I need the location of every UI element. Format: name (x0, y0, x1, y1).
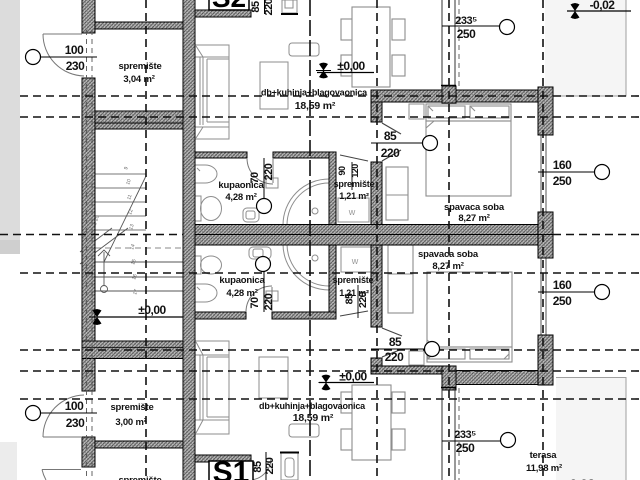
unit box S1 (209, 456, 253, 480)
svg-text:spavaca soba: spavaca soba (444, 202, 505, 213)
svg-text:250: 250 (457, 27, 476, 41)
level marker stairwell (89, 303, 183, 325)
svg-text:220: 220 (385, 350, 404, 364)
svg-text:230: 230 (66, 59, 85, 73)
dim 233/250 bottom (442, 429, 516, 455)
svg-text:220: 220 (381, 146, 400, 160)
svg-text:4,28 m²: 4,28 m² (225, 192, 256, 203)
fixtures: washbasin S2 (243, 208, 259, 222)
dim 100/230 bottom (26, 399, 98, 430)
left gray scan band (0, 0, 20, 480)
sprem/bedroom wall S2 (371, 90, 382, 122)
dim 85/220 entrance S1 (252, 452, 276, 480)
svg-text:kupaonica: kupaonica (219, 275, 265, 286)
wbox S1 (341, 247, 372, 272)
svg-text:233⁵: 233⁵ (455, 15, 477, 27)
svg-text:85: 85 (250, 1, 262, 13)
dim 70/220 bath S1 (249, 257, 275, 313)
svg-text:85: 85 (252, 461, 264, 473)
door shelf S2 (266, 178, 278, 188)
stair bottom wall midline (82, 347, 183, 349)
svg-text:-0,02: -0,02 (590, 0, 616, 12)
svg-text:18,59 m²: 18,59 m² (295, 100, 336, 112)
svg-text:8,27 m²: 8,27 m² (458, 213, 489, 224)
door arc bath S2 (247, 158, 273, 184)
door shelf S1 (266, 291, 278, 301)
terrace door S1 (441, 388, 456, 480)
furniture: dining table S1 (341, 385, 405, 460)
svg-text:100: 100 (65, 43, 84, 57)
right wall segments (538, 87, 553, 135)
furniture: bed S1 (427, 272, 512, 362)
svg-text:1,21 m²: 1,21 m² (339, 288, 369, 298)
svg-text:S2: S2 (212, 0, 246, 13)
furniture: nightstand S2 (409, 104, 424, 119)
svg-text:spremište: spremište (333, 275, 374, 285)
furniture: couch S1 (195, 341, 229, 434)
fixtures: shower S2 (283, 179, 329, 225)
svg-text:1,21 m²: 1,21 m² (339, 191, 369, 201)
door arc entrance S1 (249, 458, 271, 480)
wbox S2 (338, 198, 369, 222)
svg-text:4,28 m²: 4,28 m² (226, 288, 257, 299)
svg-text:spremište: spremište (334, 179, 375, 189)
grid dashed verticals (145, 0, 147, 480)
bath/sprem wall S2 (329, 152, 336, 225)
dim 85/220 entrance S2 (250, 0, 275, 15)
furniture: kitchen unit S1 bottom (280, 453, 299, 480)
svg-text:11,98 m²: 11,98 m² (526, 463, 562, 474)
svg-text:160: 160 (553, 278, 572, 292)
terrace S1 slab (556, 377, 626, 480)
furniture: nightstand S1 (409, 351, 424, 365)
wall left mid (82, 78, 95, 391)
svg-text:kupaonica: kupaonica (218, 180, 264, 191)
bottom wall band bedroom S1 (371, 366, 443, 374)
svg-text:230: 230 (66, 416, 85, 430)
furniture: kitchen counter S1 (289, 424, 319, 437)
dim sprem S2 rotated (337, 162, 360, 190)
svg-text:w: w (351, 256, 359, 266)
central wall band (195, 225, 553, 246)
wall spremiste300 bottom (95, 441, 183, 448)
terrace door S2 (441, 0, 456, 87)
svg-text:±0,00: ±0,00 (339, 370, 367, 384)
svg-text:233⁵: 233⁵ (454, 429, 476, 441)
svg-text:250: 250 (553, 294, 572, 308)
door leaf bedroom S1 (382, 328, 402, 357)
furniture: bed S2 (426, 104, 511, 196)
dim 85/220 bedroom S2 (371, 129, 438, 160)
door leaf bedroom S2 (382, 123, 401, 161)
central band midline (195, 234, 553, 236)
dim 160/250 S2 (538, 158, 610, 188)
door leaf sprem S1 (340, 311, 368, 316)
svg-text:S1: S1 (213, 456, 250, 480)
svg-text:160: 160 (553, 158, 572, 172)
wall under S1 box (195, 455, 251, 462)
furniture: kitchen counter S2 (289, 43, 319, 56)
svg-text:85: 85 (389, 335, 402, 349)
svg-text:±0,00: ±0,00 (337, 59, 365, 73)
bath/sprem wall S1 (329, 244, 336, 312)
wall left top (82, 0, 95, 33)
wall spremiste bottom / stair top (95, 111, 183, 129)
window S1 right (538, 258, 553, 335)
svg-text:spavaca soba: spavaca soba (418, 249, 479, 260)
furniture: island S2 (260, 62, 288, 109)
fixtures: sink S1 (195, 284, 217, 302)
level marker S1 living (319, 370, 375, 391)
door arc bottom-left edge (42, 470, 81, 480)
fixtures: sink S2 (195, 165, 217, 183)
sprem/bedroom wall S1 (371, 244, 382, 327)
furniture: island S1 (259, 357, 288, 398)
svg-text:18,59 m²: 18,59 m² (293, 412, 334, 424)
furniture: wardrobe S1 (388, 245, 413, 313)
svg-text:85: 85 (384, 129, 397, 143)
terrace S2 slab (545, 0, 626, 96)
window S2 right (538, 135, 553, 212)
fixtures: shower S1 (283, 244, 329, 290)
fixtures: washbasin S1 (249, 247, 271, 259)
svg-text:8,27 m²: 8,27 m² (432, 261, 463, 272)
fixtures: toilet S2 (195, 196, 222, 221)
svg-text:250: 250 (553, 174, 572, 188)
furniture: dining table S2 (341, 7, 405, 87)
unit box S2 (209, 0, 249, 13)
dim sprem S1 rotated (344, 285, 370, 318)
wall left low (82, 437, 95, 467)
svg-text:220: 220 (263, 293, 275, 310)
stair top wall midline (95, 122, 183, 124)
svg-text:db+kuhinja+blagovaonica: db+kuhinja+blagovaonica (259, 401, 366, 411)
door arc top-left (43, 34, 84, 76)
svg-text:120: 120 (350, 164, 360, 178)
bath S1 bottom wall (195, 312, 246, 319)
furniture: kitchen unit S2 top (281, 0, 298, 14)
door leaf sprem S2 (340, 155, 368, 161)
bath S2 top wall (195, 152, 247, 158)
room labels (110, 61, 562, 480)
wall under S2 box (195, 10, 251, 17)
svg-text:220: 220 (263, 163, 275, 180)
dim 70/220 bath S2 (249, 158, 275, 214)
dim 233/250 top (442, 15, 515, 41)
svg-text:spremište: spremište (110, 402, 153, 413)
svg-text:100: 100 (65, 399, 84, 413)
svg-text:90: 90 (337, 166, 347, 176)
dim 100/230 top (26, 43, 98, 73)
dim 160/250 S1 (538, 278, 610, 308)
svg-text:220: 220 (264, 457, 276, 474)
svg-text:db+kuhinja+blagovaonica: db+kuhinja+blagovaonica (261, 88, 368, 98)
dim 85/220 bedroom S1 (371, 335, 440, 364)
door arc bath S1 (246, 286, 272, 312)
level marker -0,02 bottom right partial (565, 476, 595, 480)
svg-text:spremište: spremište (118, 475, 161, 480)
svg-text:spremište: spremište (118, 61, 161, 72)
door arc bottom-left spremiste300 (43, 395, 84, 437)
svg-text:±0,00: ±0,00 (138, 303, 166, 317)
svg-text:3,04 m²: 3,04 m² (123, 74, 154, 85)
stairs (80, 174, 183, 293)
wall spremiste top (95, 22, 183, 29)
svg-text:3,00 m²: 3,00 m² (115, 417, 146, 428)
level marker -0,02 top right (567, 0, 631, 19)
svg-text:220: 220 (263, 0, 275, 15)
furniture: wardrobe S2 (386, 167, 408, 220)
walls (82, 0, 553, 480)
level marker S2 living (316, 59, 374, 78)
stair numbers (91, 166, 139, 296)
svg-text:w: w (348, 207, 356, 217)
spine wall (183, 0, 195, 480)
fixtures: toilet S1 (195, 256, 222, 274)
svg-text:250: 250 (456, 441, 475, 455)
furniture: couch S2 (195, 45, 229, 139)
svg-text:-0,02: -0,02 (565, 476, 595, 480)
wall stair bottom (82, 341, 183, 359)
top wall band bedroom S2 (371, 90, 553, 102)
svg-text:terasa: terasa (530, 450, 558, 461)
grid dashed horizontals (0, 96, 640, 399)
